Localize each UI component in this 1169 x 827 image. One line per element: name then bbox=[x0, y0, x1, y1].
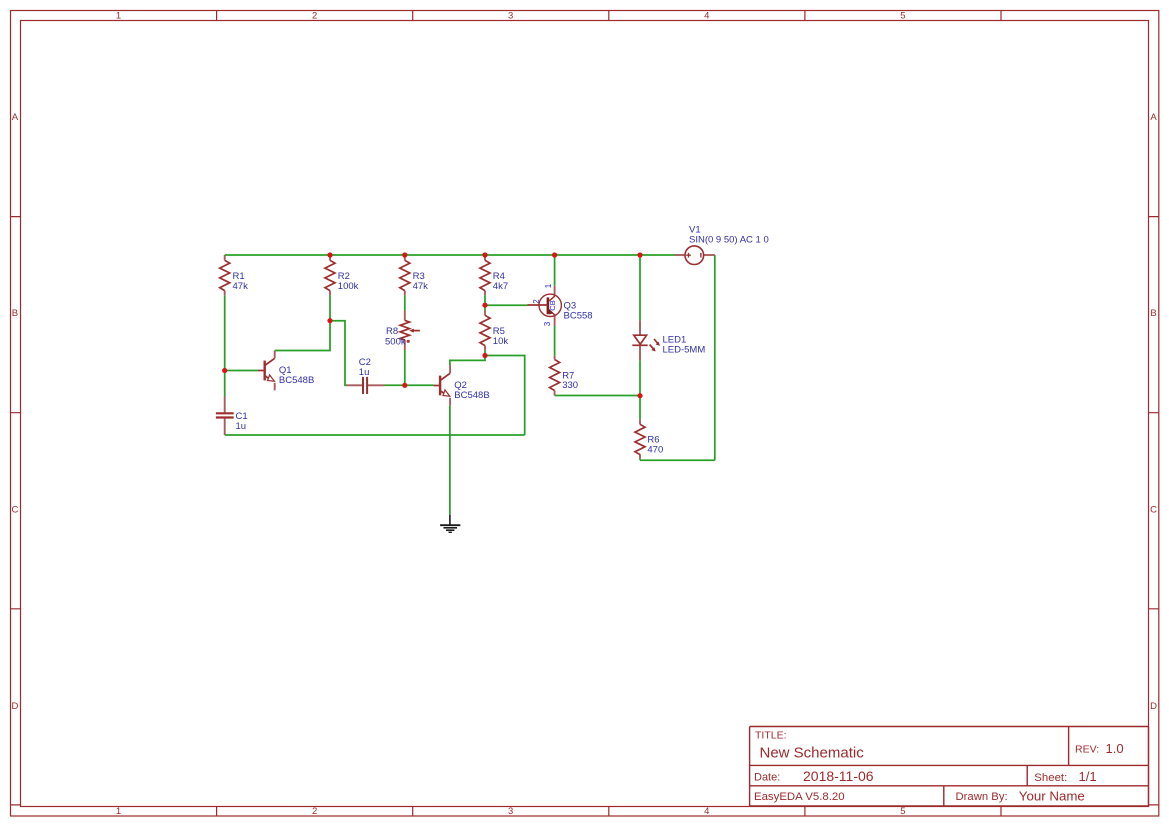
wire LED bottom to node bbox=[639, 360, 641, 395]
ground bbox=[440, 515, 460, 532]
pin R3 bottom bbox=[404, 291, 406, 296]
resistor R7 bbox=[550, 360, 560, 391]
resistor R2 bbox=[325, 260, 335, 290]
pin R6 top bbox=[639, 419, 641, 424]
pin R7 bottom bbox=[554, 391, 556, 396]
pin Q1 emitter bbox=[274, 383, 276, 391]
svg-text:BC548B: BC548B bbox=[279, 375, 314, 386]
svg-text:2: 2 bbox=[532, 299, 541, 304]
pin C1 bottom bbox=[224, 418, 226, 435]
wire bottom return C1 to vertical bbox=[225, 434, 525, 436]
svg-text:A: A bbox=[1150, 112, 1157, 123]
wire R1 bottom to Q1 base node bbox=[224, 295, 226, 370]
wire node to R6 top bbox=[639, 396, 641, 420]
junction C2-Q2 base node bbox=[402, 383, 407, 388]
wire R2 node to C2 left bbox=[330, 321, 347, 386]
svg-text:3: 3 bbox=[543, 321, 552, 326]
wire node to C1 top bbox=[224, 371, 226, 397]
svg-text:Your Name: Your Name bbox=[1019, 789, 1085, 804]
resistor R4 bbox=[480, 260, 490, 290]
junction Q1 base node bbox=[222, 368, 227, 373]
svg-text:3: 3 bbox=[508, 806, 513, 817]
pin R3 top bbox=[404, 255, 406, 260]
wire Q1 base bbox=[225, 370, 258, 372]
junction R7-R6-LED node bbox=[637, 393, 642, 398]
svg-text:B: B bbox=[12, 308, 18, 319]
junction rail-LED bbox=[637, 252, 642, 257]
pin V1 left bbox=[675, 254, 685, 256]
svg-text:EasyEDA V5.8.20: EasyEDA V5.8.20 bbox=[754, 791, 845, 803]
wire R2 bottom to node bbox=[329, 295, 331, 320]
capacitor C1 bbox=[216, 413, 234, 417]
svg-text:Sheet:: Sheet: bbox=[1034, 772, 1067, 784]
svg-text:Date:: Date: bbox=[754, 772, 780, 784]
svg-text:D: D bbox=[1150, 701, 1157, 712]
pin Q3 3 bbox=[554, 315, 556, 326]
pin C1 top bbox=[224, 397, 226, 414]
pin R7 top bbox=[554, 356, 556, 360]
svg-text:B: B bbox=[1150, 308, 1156, 319]
svg-text:C: C bbox=[1150, 505, 1157, 516]
svg-text:TITLE:: TITLE: bbox=[755, 730, 787, 742]
wire R4 bottom to base node bbox=[484, 295, 486, 305]
resistor R3 bbox=[400, 260, 410, 290]
wire R8 bottom to C2 node bbox=[404, 350, 406, 385]
svg-text:470: 470 bbox=[647, 445, 663, 456]
wire Q3 pin3 to R7 top bbox=[554, 326, 556, 356]
svg-text:4k7: 4k7 bbox=[493, 281, 508, 292]
wire R7 bottom to node bbox=[555, 395, 640, 397]
svg-text:1u: 1u bbox=[236, 421, 247, 432]
junction R4-R5 node bbox=[482, 303, 487, 308]
svg-text:BC558: BC558 bbox=[564, 310, 593, 321]
pin R1 top bbox=[224, 255, 226, 260]
svg-text:4: 4 bbox=[704, 10, 709, 21]
transistor Q1 bbox=[258, 358, 275, 381]
wire R5 node right then down to bottom return bbox=[485, 356, 525, 436]
voltage source V1 bbox=[685, 246, 704, 265]
svg-text:47k: 47k bbox=[233, 281, 249, 292]
svg-text:330: 330 bbox=[562, 380, 578, 391]
pin Q2 collector bbox=[449, 365, 451, 373]
wire R2 node down to Q1 collector bbox=[275, 321, 330, 351]
pin R5 top bbox=[484, 311, 486, 316]
svg-text:2: 2 bbox=[312, 10, 317, 21]
svg-text:1: 1 bbox=[116, 806, 121, 817]
svg-text:1/1: 1/1 bbox=[1079, 769, 1097, 784]
svg-text:1: 1 bbox=[544, 283, 553, 288]
svg-text:1.0: 1.0 bbox=[1106, 741, 1124, 756]
wire R5 node to Q2 collector bbox=[450, 356, 485, 366]
transistor Q3 bbox=[528, 294, 562, 316]
wire node to Q2 base bbox=[405, 384, 434, 386]
LED LED1 bbox=[632, 335, 660, 351]
pin Q3 1 bbox=[554, 286, 556, 296]
junction rail-R4 bbox=[482, 252, 487, 257]
pin R2 bottom bbox=[329, 291, 331, 296]
svg-text:A: A bbox=[12, 112, 19, 123]
svg-text:D: D bbox=[11, 701, 18, 712]
pin Q1 collector bbox=[274, 351, 276, 359]
svg-text:REV:: REV: bbox=[1075, 744, 1099, 756]
junction rail-Q3 bbox=[552, 252, 557, 257]
resistor R6 bbox=[635, 424, 645, 454]
wire C2 right to Q2 base node bbox=[385, 384, 405, 386]
pin R4 bottom bbox=[484, 291, 486, 296]
resistor R1 bbox=[220, 260, 230, 290]
junction rail-R3 bbox=[402, 252, 407, 257]
svg-text:5: 5 bbox=[900, 806, 905, 817]
svg-text:SIN(0 9 50) AC 1 0: SIN(0 9 50) AC 1 0 bbox=[689, 235, 769, 246]
svg-text:Drawn By:: Drawn By: bbox=[956, 791, 1008, 803]
wire R3 bottom to R8 top bbox=[404, 295, 406, 310]
svg-text:1: 1 bbox=[116, 10, 121, 21]
pin R4 top bbox=[484, 255, 486, 260]
pin R2 top bbox=[329, 255, 331, 260]
wire rail to LED top bbox=[639, 255, 641, 320]
svg-text:3: 3 bbox=[508, 10, 513, 21]
svg-text:C: C bbox=[11, 505, 18, 516]
pin LED bottom bbox=[639, 345, 641, 360]
pin R1 bottom bbox=[224, 291, 226, 296]
wire node to R5 top bbox=[484, 305, 486, 310]
wire R6 bottom corner bbox=[639, 459, 641, 461]
potentiometer R8 bbox=[400, 320, 420, 343]
svg-text:500k: 500k bbox=[385, 337, 406, 348]
pin R6 bottom bbox=[639, 454, 641, 458]
svg-text:BC548B: BC548B bbox=[454, 390, 489, 401]
junction R2 bottom node bbox=[327, 318, 332, 323]
pin C2 right bbox=[368, 384, 385, 386]
pin R5 bottom bbox=[484, 346, 486, 351]
svg-text:10k: 10k bbox=[493, 336, 509, 347]
wire V1 right to right-edge drop bbox=[714, 255, 716, 460]
junction rail-R2 bbox=[327, 252, 332, 257]
pin R8 bottom bbox=[404, 340, 406, 350]
wire top power rail bbox=[225, 254, 675, 256]
transistor Q2 bbox=[434, 373, 451, 396]
svg-text:R8: R8 bbox=[386, 326, 398, 337]
wire bottom right R6 return bbox=[640, 459, 715, 461]
svg-text:4: 4 bbox=[704, 806, 709, 817]
svg-text:1u: 1u bbox=[359, 367, 370, 378]
svg-text:100k: 100k bbox=[338, 281, 359, 292]
pin R8 top bbox=[404, 311, 406, 321]
svg-text:47k: 47k bbox=[413, 281, 429, 292]
wire R5 bottom to node bbox=[484, 350, 486, 355]
pin Q2 emitter bbox=[449, 398, 451, 405]
junction R5 bottom node bbox=[482, 353, 487, 358]
resistor R5 bbox=[480, 315, 490, 345]
svg-text:CB: CB bbox=[548, 300, 557, 310]
svg-text:2: 2 bbox=[312, 806, 317, 817]
svg-text:LED-5MM: LED-5MM bbox=[663, 345, 706, 356]
wire Q2 emitter to ground bbox=[449, 405, 451, 515]
capacitor C2 bbox=[363, 377, 367, 394]
svg-text:2018-11-06: 2018-11-06 bbox=[803, 768, 874, 784]
svg-text:5: 5 bbox=[900, 10, 905, 21]
wire rail to Q3 pin1 bbox=[554, 255, 556, 286]
pin LED top bbox=[639, 320, 641, 335]
pin V1 right bbox=[704, 254, 715, 256]
svg-text:New Schematic: New Schematic bbox=[760, 744, 865, 761]
wire node to Q3 base bbox=[485, 304, 528, 306]
pin C2 left bbox=[347, 384, 363, 386]
